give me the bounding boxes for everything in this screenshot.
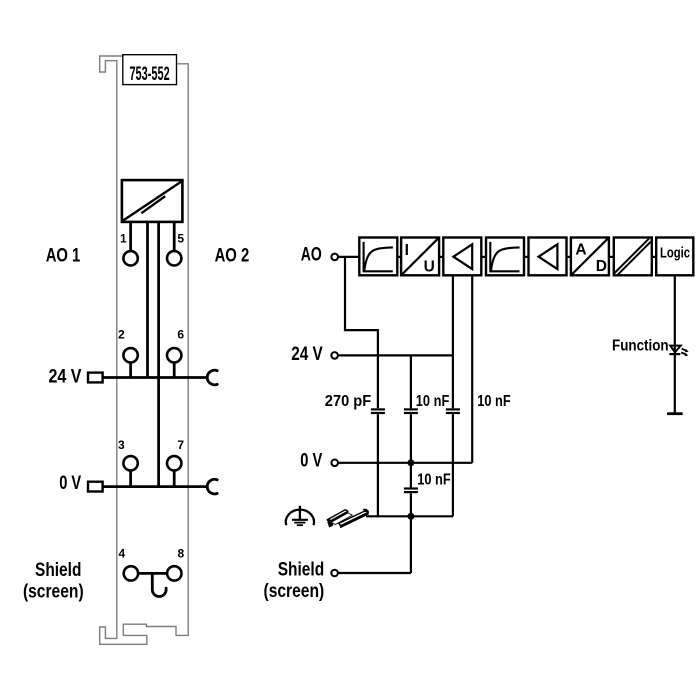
capacitor C3 10 nF plates: [446, 409, 460, 413]
svg-text:270 pF: 270 pF: [325, 393, 371, 410]
terminal 2: [123, 348, 137, 362]
node 0 V: [331, 460, 338, 467]
wire DAC to 0V rail: [157, 222, 160, 487]
wire 10 nF C2 from 24 V rail: [410, 355, 412, 408]
wire block3 base leg down to 0 V: [471, 276, 473, 463]
terminal 4: [124, 566, 138, 580]
function block 6: A/D converter: [571, 238, 609, 276]
svg-text:7: 7: [177, 438, 184, 452]
svg-text:10 nF: 10 nF: [416, 393, 450, 410]
0 V rail output hook: [207, 479, 217, 494]
node Shield: [331, 570, 338, 577]
function block 5: amplifier (left triangle): [529, 238, 567, 276]
terminal 1: [123, 251, 137, 265]
svg-text:3: 3: [118, 438, 125, 452]
24 V rail wire: [103, 376, 208, 379]
wire terminal 4 to terminal 8: [138, 572, 167, 575]
wire 24 V rail: [338, 354, 453, 356]
svg-text:0 V: 0 V: [59, 472, 81, 494]
capacitor C1 270 pF plates: [371, 409, 385, 413]
functional earth symbol: [286, 506, 314, 525]
svg-text:Logic: Logic: [660, 245, 690, 262]
terminal 6: [167, 348, 181, 362]
function block 3: amplifier (left triangle): [443, 238, 481, 276]
DAC block U1 (box with diagonal): [122, 180, 182, 222]
svg-text:8: 8: [178, 546, 185, 560]
svg-text:753-552: 753-552: [129, 63, 169, 85]
terminal 7: [167, 456, 181, 470]
wire DAC to 24V rail: [146, 222, 149, 378]
screen rail wire: [366, 515, 453, 517]
wire 0 V rail: [338, 462, 472, 464]
wire block1-block2: [397, 256, 401, 258]
junction dot screen rail: [407, 513, 414, 520]
wire terminal 6 stem: [173, 363, 176, 378]
wire AO to block chain: [338, 256, 359, 258]
svg-text:AO 1: AO 1: [46, 245, 81, 267]
wire C2 down to 0 V rail: [410, 414, 412, 463]
24 V feed square connector: [88, 373, 103, 383]
wire block3-block4: [481, 256, 486, 258]
wire C3 down to screen rail: [452, 414, 454, 516]
shield stub hook (free hanging): [152, 573, 166, 596]
function block 7: galvanic isolation: [613, 237, 654, 278]
svg-text:Function: Function: [612, 338, 669, 355]
capacitor C4 10 nF plates: [404, 489, 418, 493]
node AO: [331, 254, 338, 261]
svg-text:(screen): (screen): [264, 580, 325, 602]
terminal 3: [123, 456, 137, 470]
svg-text:5: 5: [177, 231, 184, 245]
ground bar: [667, 412, 683, 415]
svg-text:AO: AO: [301, 244, 322, 266]
svg-text:6: 6: [177, 328, 184, 342]
capacitor C2 10 nF plates: [404, 409, 418, 413]
svg-text:AO 2: AO 2: [215, 245, 250, 267]
svg-text:A: A: [575, 241, 586, 258]
svg-text:Shield: Shield: [35, 559, 81, 581]
svg-text:0 V: 0 V: [300, 450, 322, 472]
wire Logic down to LED and ground: [674, 276, 676, 414]
junction dot 0V / C4: [407, 459, 414, 466]
wire block4-block5: [524, 256, 529, 258]
wire C4 from 0 V rail: [410, 463, 412, 488]
svg-text:24 V: 24 V: [49, 365, 82, 387]
svg-text:10 nF: 10 nF: [477, 393, 511, 410]
wire block7-block8: [652, 256, 656, 258]
terminal 8: [167, 566, 181, 580]
svg-text:2: 2: [118, 328, 125, 342]
terminal 5: [167, 251, 181, 265]
wire block2-block3: [439, 256, 443, 258]
svg-text:4: 4: [119, 546, 126, 560]
LED D1 (Function indicator): [669, 346, 688, 357]
wire 270 pF down to screen rail: [377, 414, 379, 516]
svg-text:1: 1: [120, 231, 127, 245]
wire AO branch down to 270 pF: [345, 257, 378, 408]
0 V rail wire: [103, 485, 208, 488]
svg-text:I: I: [405, 242, 409, 259]
node 24 V: [331, 352, 338, 359]
wire terminal 7 stem: [173, 471, 176, 487]
function block 4: filter: [486, 238, 524, 276]
svg-text:(screen): (screen): [23, 580, 84, 602]
wire block6-block7: [609, 256, 614, 258]
24 V rail output hook: [207, 370, 217, 385]
label box 753-552: [123, 55, 177, 85]
module body outline 753-552 I/O module: [100, 56, 189, 644]
wire block3 apex leg down: [452, 276, 454, 409]
svg-text:24 V: 24 V: [291, 343, 323, 365]
wire C4 down to shield node wire: [410, 493, 412, 573]
svg-text:D: D: [596, 258, 607, 275]
function block 8: Logic: [656, 238, 693, 276]
wire shield node to C4 branch: [338, 572, 411, 574]
svg-text:U: U: [424, 258, 435, 275]
svg-text:Shield: Shield: [278, 559, 325, 581]
function block 1: filter: [359, 238, 397, 276]
wire DAC to terminal 1: [129, 222, 132, 251]
svg-text:10 nF: 10 nF: [417, 471, 451, 488]
wire DAC to terminal 5: [173, 222, 176, 251]
function block 2: I/U converter: [401, 238, 439, 276]
wire terminal 3 stem: [129, 471, 132, 487]
wire block5-block6: [567, 256, 571, 258]
wire terminal 2 stem: [129, 363, 132, 378]
0 V feed square connector: [88, 482, 103, 492]
shield clamp icon: [327, 509, 369, 527]
